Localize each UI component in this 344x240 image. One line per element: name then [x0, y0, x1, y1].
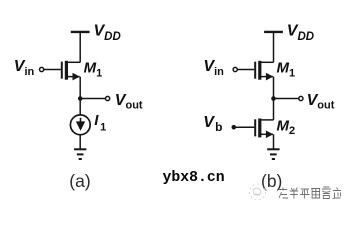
gate bar [61, 62, 63, 79]
gate bar [254, 62, 256, 79]
wire VDD to M1 drain (b) [273, 32, 275, 62]
node junction dot (b) [271, 96, 276, 101]
channel bar [65, 61, 68, 80]
current source arrow [80, 118, 82, 123]
drain wire [260, 61, 274, 63]
source arrow [73, 73, 80, 81]
svg-text:ybx8.cn: ybx8.cn [163, 170, 225, 186]
gate bar [254, 119, 256, 136]
ground (a) [74, 149, 86, 159]
node junction dot (a) [78, 96, 83, 101]
output terminal circle (a) [106, 96, 110, 100]
watermark logo circle [250, 184, 266, 200]
wire M2 source to ground (b) [273, 134, 275, 148]
Vb terminal dot (b) [232, 125, 237, 130]
wire node down to current source (a) [79, 99, 81, 116]
wire node to output terminal (b) [274, 98, 299, 100]
source wire [260, 133, 273, 135]
watermark text 左半平面零点 (drawn strokes) [279, 187, 341, 199]
transistor M1 (b) [255, 61, 273, 81]
svg-text:(b): (b) [261, 171, 282, 191]
wire output node down to M2 drain (b) [273, 99, 275, 120]
transistor M1 (a) [62, 61, 80, 81]
wire M1 source down to output node (a) [79, 77, 81, 99]
wire Vin to gate (a) [44, 69, 61, 71]
drain wire [260, 119, 274, 121]
wire node to output terminal (a) [80, 98, 105, 100]
source arrow [266, 73, 273, 81]
input terminal circle (b) [233, 67, 237, 71]
transistor M2 (b) [255, 119, 273, 139]
source wire [66, 76, 79, 78]
svg-text:(a): (a) [69, 171, 90, 191]
wire Vin to gate (b) [238, 69, 255, 71]
wire VDD to M1 drain (a) [79, 32, 81, 62]
drain wire [66, 61, 80, 63]
ground (b) [267, 149, 279, 159]
input terminal circle (a) [40, 67, 44, 71]
wire M1 source down to output node (b) [273, 77, 275, 99]
output terminal circle (b) [299, 96, 303, 100]
channel bar [258, 119, 261, 138]
wire current source to ground (a) [79, 135, 81, 149]
source arrow [266, 131, 273, 139]
VDD supply bar (b) [264, 31, 283, 33]
current source I1 circle [70, 115, 90, 135]
channel bar [258, 61, 261, 80]
wire Vb to M2 gate (b) [234, 126, 255, 128]
source wire [260, 76, 273, 78]
VDD supply bar (a) [71, 31, 90, 33]
